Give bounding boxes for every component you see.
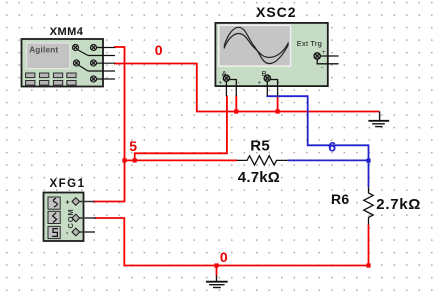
svg-text:6: 6 <box>328 138 336 154</box>
svg-text:XSC2: XSC2 <box>256 4 297 20</box>
junction node 6 at R6 top <box>366 159 370 163</box>
svg-text:4.7kΩ: 4.7kΩ <box>238 169 280 186</box>
wire net 6: junction down to R6 top lead <box>368 160 370 187</box>
svg-text:Ext Trg: Ext Trg <box>297 39 322 48</box>
ground bottom <box>206 276 228 288</box>
svg-text:+: + <box>219 81 223 87</box>
svg-text:-: - <box>238 81 240 87</box>
function generator XFG1 body <box>44 193 84 242</box>
svg-text:R6: R6 <box>331 191 350 207</box>
wire net 5: junction to R5 left lead <box>125 159 238 161</box>
wire net 5: branch up to scope channel A plus <box>135 96 227 161</box>
XSC2 channel A pin stubs <box>226 80 236 97</box>
svg-text:B: B <box>262 69 267 78</box>
XSC2 channel B pin stubs <box>267 80 277 97</box>
wire net 0: scope B minus drop to ground bus <box>277 96 279 112</box>
wire net 5: XMM4 terminal to XFG1 plus, vertical trunk <box>93 47 125 202</box>
wire net 0: XFG1 COM down and along bottom to R6 <box>94 218 369 266</box>
resistor R5 <box>237 156 288 165</box>
svg-text:0: 0 <box>220 249 228 265</box>
svg-text:XFG1: XFG1 <box>49 178 85 190</box>
junction node 0 at scope B minus <box>276 109 280 113</box>
oscilloscope XSC2 body <box>215 23 327 87</box>
junction node 5 left dot <box>122 158 126 162</box>
junction node 0 at scope A minus <box>234 109 238 113</box>
svg-text:R5: R5 <box>250 138 270 155</box>
svg-text:XMM4: XMM4 <box>50 26 84 38</box>
svg-text:+: + <box>258 81 262 87</box>
multimeter XMM4 body <box>22 39 104 87</box>
XSC2 Ext Trg pin stubs <box>317 56 338 64</box>
svg-text:2.7kΩ: 2.7kΩ <box>376 196 421 213</box>
wire net 0: stub to bottom ground <box>216 266 218 276</box>
wire net 6: scope B plus to R6 top <box>267 96 368 161</box>
svg-text:0: 0 <box>155 42 163 58</box>
junction node 5 right dot <box>133 158 137 162</box>
svg-text:+: + <box>66 200 70 207</box>
wire net 0: scope A minus drop to ground bus <box>235 96 237 112</box>
svg-text:+: + <box>322 50 326 56</box>
svg-text:A: A <box>222 69 227 78</box>
XFG1 pin stubs <box>80 202 96 233</box>
junction node 0 at bottom ground tap <box>214 263 218 267</box>
svg-text:-: - <box>321 65 323 71</box>
wire net 0: XMM4 terminal to top-right ground bus <box>114 64 380 112</box>
ground top right <box>368 112 389 127</box>
junction node 0 at R6 bottom <box>366 263 370 267</box>
svg-text:Agilent: Agilent <box>29 45 58 54</box>
wire net 6: R5 right lead to R6 junction <box>288 159 369 161</box>
svg-text:5: 5 <box>129 138 137 154</box>
XMM4 pin stubs <box>88 48 115 80</box>
wire net 0: R6 bottom lead down to bottom bus <box>368 225 370 266</box>
resistor R6 <box>364 187 373 225</box>
